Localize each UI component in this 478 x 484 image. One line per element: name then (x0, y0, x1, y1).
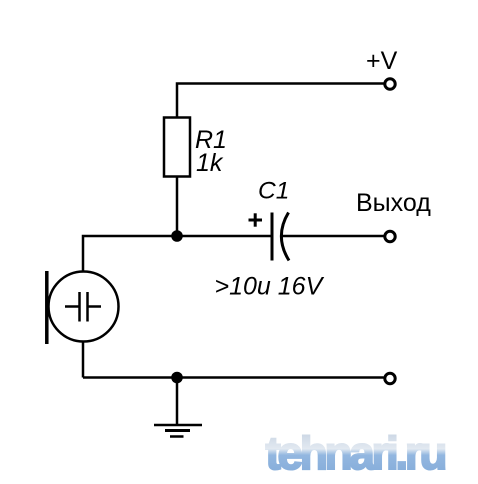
wire bottom rail (83, 376, 384, 379)
ground bar 2 (165, 429, 190, 432)
microphone internal capacitor right plate (86, 292, 89, 322)
ground bar 1 (154, 424, 202, 427)
svg-text:1k: 1k (196, 149, 224, 177)
terminal +V (385, 79, 395, 89)
microphone M1 circle (49, 272, 119, 342)
svg-text:+V: +V (366, 47, 398, 75)
capacitor C1 positive plate (271, 213, 274, 261)
terminal output (385, 231, 395, 241)
node A junction dot (171, 230, 183, 242)
wire: mic bottom to bottom rail (82, 342, 85, 378)
ground stem (176, 378, 179, 426)
microphone internal capacitor right lead (88, 305, 102, 308)
wire top: resistor top to +V terminal (177, 84, 384, 118)
wire: resistor bottom to node A (176, 177, 179, 237)
svg-text:tehnari.ru: tehnari.ru (266, 427, 447, 479)
ground junction dot (171, 372, 183, 384)
wire: capacitor to output terminal (283, 235, 384, 238)
microphone internal capacitor left plate (78, 292, 81, 322)
capacitor C1 plus sign (249, 219, 263, 222)
svg-text:>10u 16V: >10u 16V (215, 273, 325, 301)
svg-text:C1: C1 (258, 178, 289, 205)
resistor R1 (164, 118, 190, 177)
terminal bottom (385, 373, 395, 383)
ground bar 3 (170, 435, 184, 438)
capacitor C1 negative curved plate (281, 213, 289, 261)
svg-text:Выход: Выход (356, 189, 431, 217)
microphone membrane bar (45, 271, 49, 344)
microphone internal capacitor left lead (65, 305, 80, 308)
wire: mic top corner to capacitor C1 left plate (83, 236, 271, 272)
